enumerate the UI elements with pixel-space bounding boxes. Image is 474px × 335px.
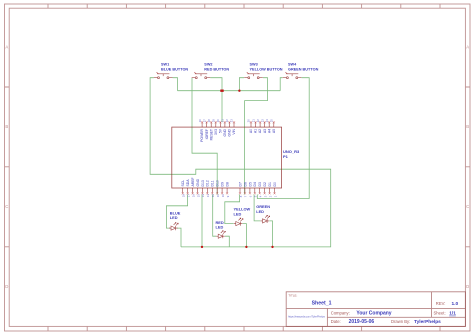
svg-text:SW1: SW1 — [161, 63, 169, 67]
svg-text:YELLOW BUTTON: YELLOW BUTTON — [250, 67, 283, 71]
svg-text:12: 12 — [211, 194, 215, 198]
svg-text:D7: D7 — [238, 182, 242, 186]
svg-text:13: 13 — [206, 194, 210, 198]
svg-text:D3: D3 — [258, 182, 262, 186]
svg-text:Sheet:: Sheet: — [434, 311, 446, 316]
svg-text:30: 30 — [216, 119, 220, 123]
svg-text:2: 2 — [268, 195, 272, 197]
svg-text:D2: D2 — [263, 182, 267, 186]
svg-text:D4: D4 — [253, 182, 257, 186]
svg-text:P1: P1 — [283, 154, 289, 159]
svg-text:D5: D5 — [248, 182, 252, 186]
svg-text:1.0: 1.0 — [452, 301, 459, 307]
svg-text:Sheet_1: Sheet_1 — [312, 300, 332, 306]
svg-text:D12: D12 — [206, 180, 210, 186]
svg-text:26: 26 — [198, 119, 202, 123]
svg-text:3: 3 — [263, 195, 267, 197]
svg-text:IOREF: IOREF — [205, 129, 209, 139]
svg-text:15: 15 — [196, 194, 200, 198]
svg-text:SDA: SDA — [186, 179, 190, 187]
svg-text:B: B — [466, 124, 469, 129]
svg-text:5V: 5V — [218, 128, 222, 133]
svg-text:Your Company: Your Company — [356, 310, 391, 316]
svg-text:https://easyeda.com/TylerPhelp: https://easyeda.com/TylerPhelps — [288, 315, 326, 319]
svg-text:1/1: 1/1 — [449, 311, 456, 317]
svg-text:C: C — [5, 204, 8, 209]
svg-text:11: 11 — [216, 194, 220, 197]
svg-text:D8: D8 — [226, 182, 230, 186]
svg-text:RESET: RESET — [209, 129, 213, 140]
svg-text:D10: D10 — [216, 180, 220, 186]
svg-text:RED BUTTON: RED BUTTON — [204, 67, 229, 71]
svg-text:23: 23 — [260, 119, 264, 123]
svg-text:4: 4 — [259, 195, 263, 197]
svg-text:REV:: REV: — [436, 301, 446, 306]
svg-text:LED: LED — [234, 211, 242, 216]
svg-text:17: 17 — [186, 194, 190, 198]
svg-text:SW4: SW4 — [288, 63, 297, 67]
svg-text:D: D — [466, 284, 469, 289]
svg-text:D9: D9 — [221, 182, 225, 186]
svg-text:D1: D1 — [268, 182, 272, 186]
svg-text:A0: A0 — [249, 129, 253, 133]
svg-text:3V3: 3V3 — [214, 129, 218, 135]
svg-text:32: 32 — [225, 119, 229, 123]
svg-text:A5: A5 — [272, 129, 276, 133]
svg-text:A3: A3 — [263, 129, 267, 133]
svg-text:LED: LED — [170, 215, 178, 220]
svg-text:16: 16 — [191, 194, 195, 198]
svg-text:D11: D11 — [211, 180, 215, 186]
svg-text:29: 29 — [212, 119, 216, 123]
svg-text:33: 33 — [230, 119, 234, 123]
svg-text:21: 21 — [251, 119, 255, 123]
svg-text:BLUE BUTTON: BLUE BUTTON — [161, 67, 188, 71]
svg-text:SCL: SCL — [181, 180, 185, 187]
svg-text:POWER: POWER — [200, 128, 204, 141]
svg-text:A: A — [466, 45, 469, 50]
svg-text:GND: GND — [223, 128, 227, 136]
svg-text:2019-05-06: 2019-05-06 — [349, 319, 375, 325]
svg-text:25: 25 — [270, 119, 274, 123]
svg-text:A4: A4 — [267, 129, 271, 133]
svg-text:D: D — [5, 284, 8, 289]
svg-text:Date:: Date: — [331, 319, 341, 324]
svg-text:D6: D6 — [243, 182, 247, 186]
svg-text:AREF: AREF — [191, 177, 195, 186]
svg-text:22: 22 — [256, 119, 260, 123]
svg-text:Company:: Company: — [331, 310, 350, 315]
svg-text:GREEN BUTTON: GREEN BUTTON — [288, 67, 319, 71]
svg-text:TITLE:: TITLE: — [288, 293, 297, 297]
svg-text:SW3: SW3 — [250, 63, 258, 67]
svg-text:LED: LED — [256, 209, 264, 214]
svg-text:9: 9 — [226, 195, 230, 197]
svg-text:1: 1 — [273, 195, 277, 197]
svg-text:6: 6 — [249, 195, 253, 197]
svg-text:A1: A1 — [254, 129, 258, 133]
svg-text:D13: D13 — [201, 180, 205, 186]
svg-text:27: 27 — [202, 119, 206, 123]
svg-text:VIN: VIN — [232, 128, 236, 134]
svg-text:7: 7 — [244, 195, 248, 197]
svg-text:24: 24 — [265, 119, 269, 123]
svg-text:GND: GND — [196, 178, 200, 186]
svg-text:D0: D0 — [273, 182, 277, 186]
svg-text:18: 18 — [182, 194, 186, 198]
svg-text:20: 20 — [247, 119, 251, 123]
svg-text:TylerPhelps: TylerPhelps — [414, 319, 441, 325]
svg-text:SW2: SW2 — [204, 63, 212, 67]
svg-text:Drawn By:: Drawn By: — [391, 319, 410, 324]
svg-text:B: B — [5, 124, 8, 129]
svg-text:GND: GND — [228, 128, 232, 136]
svg-text:10: 10 — [221, 194, 225, 198]
svg-text:A2: A2 — [258, 129, 262, 133]
svg-text:31: 31 — [221, 119, 225, 123]
svg-text:28: 28 — [207, 119, 211, 123]
svg-text:C: C — [466, 204, 469, 209]
svg-text:14: 14 — [201, 194, 205, 198]
svg-text:LED: LED — [216, 224, 224, 229]
svg-text:A: A — [5, 45, 8, 50]
